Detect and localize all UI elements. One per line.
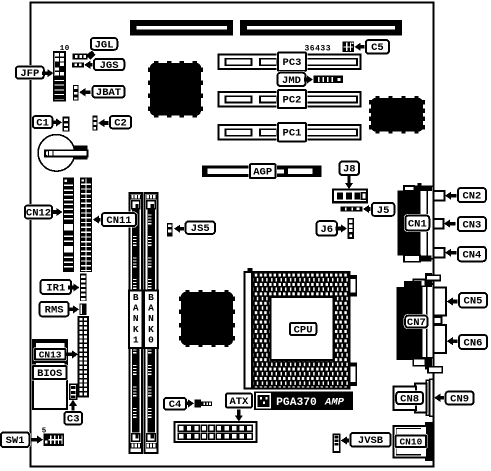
svg-text:J5: J5 (377, 205, 390, 217)
svg-text:SW1: SW1 (6, 435, 25, 447)
header CN11 (80, 178, 92, 273)
label JGL (86, 37, 119, 60)
memory slot bar top-right (240, 20, 402, 36)
label C3 (63, 400, 84, 426)
svg-text:PC2: PC2 (283, 95, 302, 107)
ATX power connector (175, 422, 257, 442)
svg-text:1: 1 (133, 335, 139, 346)
PCI slot PC3 (219, 55, 361, 70)
jumper strip JBAT (73, 85, 79, 101)
label J6 (315, 220, 347, 237)
jumper strip C1 (63, 116, 70, 131)
svg-text:CN10: CN10 (399, 437, 422, 448)
svg-text:PGA370: PGA370 (276, 397, 317, 409)
label JBAT (79, 84, 126, 99)
jumper block J8 (333, 190, 367, 203)
AGP slot (202, 166, 322, 178)
CPU socket lever (244, 268, 252, 389)
svg-text:A: A (148, 303, 154, 314)
label PC3 (277, 51, 308, 72)
svg-text:C1: C1 (36, 118, 49, 130)
label C2 (98, 115, 132, 130)
label RMS (38, 300, 79, 318)
svg-text:JS5: JS5 (191, 223, 210, 235)
svg-text:AGP: AGP (253, 167, 272, 179)
label PC1 (277, 122, 308, 143)
label CN6 (447, 333, 489, 350)
port CN2 (434, 191, 445, 201)
svg-text:K: K (133, 324, 139, 335)
svg-text:JFP: JFP (20, 68, 39, 80)
svg-text:C5: C5 (371, 42, 384, 54)
port CN4 (434, 248, 445, 258)
label SW1 (0, 431, 43, 449)
svg-text:0: 0 (148, 335, 154, 346)
jumper C3 (70, 384, 77, 399)
memory slot bar top-left (130, 20, 233, 36)
label CN5 (447, 292, 489, 309)
connector CN10 (394, 422, 434, 461)
header CN13 (79, 317, 89, 397)
jumper RMS (80, 304, 87, 316)
label CN3 (444, 216, 487, 233)
svg-text:CN13: CN13 (39, 350, 62, 361)
label BANK1 (129, 291, 143, 348)
svg-text:CN9: CN9 (450, 393, 469, 405)
svg-text:CPU: CPU (294, 324, 313, 336)
svg-text:CN12: CN12 (26, 207, 51, 219)
label CN10 (394, 434, 428, 448)
svg-text:PC3: PC3 (283, 57, 302, 69)
svg-text:3 6 4 3 3: 3 6 4 3 3 (304, 45, 330, 54)
svg-text:CN2: CN2 (462, 191, 481, 203)
svg-text:CN1: CN1 (408, 218, 427, 230)
chip U3 center (179, 290, 235, 347)
label JVSB (341, 431, 392, 448)
label CN4 (445, 245, 487, 262)
PCI slot PC2 (219, 92, 361, 107)
label PC2 (277, 89, 308, 110)
label C1 (31, 115, 62, 130)
label CN7 (404, 314, 429, 329)
label ATX (224, 392, 253, 422)
DIMM slot BANK1 (129, 193, 142, 453)
port CN5 (434, 288, 447, 316)
chip U1 top (148, 61, 203, 118)
svg-text:JVSB: JVSB (358, 435, 384, 447)
label J5 (363, 201, 396, 217)
header CN12 (63, 178, 74, 273)
svg-text:CN7: CN7 (407, 317, 426, 329)
jumper strip J6 (348, 218, 355, 239)
svg-text:JGL: JGL (95, 39, 114, 51)
svg-text:CN11: CN11 (106, 215, 131, 227)
CPU socket PGA370 (252, 272, 349, 389)
svg-text:K: K (148, 324, 154, 335)
CPU socket inner (271, 297, 334, 360)
connector CN8 (394, 379, 434, 416)
port CN3 (434, 219, 444, 229)
svg-text:J8: J8 (343, 164, 356, 176)
connector CN7 stack (397, 273, 443, 373)
label JFP (14, 65, 53, 80)
svg-text:CN4: CN4 (462, 250, 481, 262)
svg-text:C2: C2 (114, 118, 127, 130)
jumper strip JMD (314, 76, 344, 84)
header JFP (54, 52, 65, 100)
jumper block C5 (343, 42, 355, 53)
jumper strip J5 (341, 206, 363, 211)
port CN6 (434, 325, 447, 353)
battery BT1 (38, 135, 87, 172)
DIP switch SW1 (44, 434, 65, 446)
label BIOS (31, 365, 68, 381)
BIOS chip block (33, 340, 67, 409)
label C5 (355, 39, 391, 56)
svg-text:A: A (133, 303, 139, 314)
svg-text:J6: J6 (320, 224, 333, 236)
label IR1 (39, 278, 80, 295)
svg-text:IR1: IR1 (46, 282, 65, 294)
label CN11 (93, 212, 138, 228)
label CN2 (445, 187, 487, 204)
label CN9 (434, 390, 475, 406)
svg-text:PC1: PC1 (283, 128, 302, 140)
label CPU (288, 321, 318, 336)
header IR1 pins (80, 274, 87, 302)
label C4 (162, 396, 194, 411)
label JS5 (174, 220, 217, 235)
jumper strip C2 (92, 116, 97, 131)
svg-text:RMS: RMS (45, 305, 64, 317)
svg-text:C3: C3 (67, 414, 80, 426)
svg-text:AMP: AMP (324, 397, 345, 409)
connector CN1 stack (397, 183, 433, 261)
label JGS (84, 57, 126, 72)
svg-text:ATX: ATX (229, 396, 249, 408)
svg-text:N: N (148, 313, 154, 324)
svg-text:CN8: CN8 (400, 393, 419, 405)
svg-text:BIOS: BIOS (37, 368, 62, 380)
chip U2 top-right (369, 96, 425, 134)
jumper strip JGS (72, 62, 84, 67)
port middle tab (434, 317, 442, 324)
DIMM slot BANK0 (145, 193, 158, 453)
svg-text:JMD: JMD (282, 75, 301, 87)
svg-text:CN5: CN5 (464, 296, 483, 308)
label AGP (248, 163, 277, 180)
svg-text:JGS: JGS (100, 60, 119, 72)
socket tab right lower (350, 364, 357, 386)
PCI slot PC1 (219, 125, 361, 140)
jumper strip JS5 (167, 223, 173, 237)
PGA370 AMP bar (254, 392, 353, 411)
svg-text:N: N (133, 313, 139, 324)
label J8 (338, 160, 361, 189)
svg-text:CN6: CN6 (464, 337, 483, 349)
label JMD (276, 71, 313, 87)
label CN13 (33, 347, 78, 361)
label CN1 (404, 214, 431, 232)
jumper strip JGL (72, 53, 87, 59)
label CN8 (395, 390, 425, 405)
svg-text:B: B (133, 292, 139, 303)
svg-text:JBAT: JBAT (96, 87, 121, 99)
jumper JVSB (333, 434, 339, 452)
svg-text:C4: C4 (169, 399, 182, 411)
jumper strip C4 (194, 400, 212, 408)
label CN12 (23, 204, 62, 220)
svg-text:CN3: CN3 (462, 220, 481, 232)
svg-text:B: B (148, 292, 154, 303)
socket tab right upper (350, 276, 357, 296)
label BANK0 (144, 291, 158, 348)
